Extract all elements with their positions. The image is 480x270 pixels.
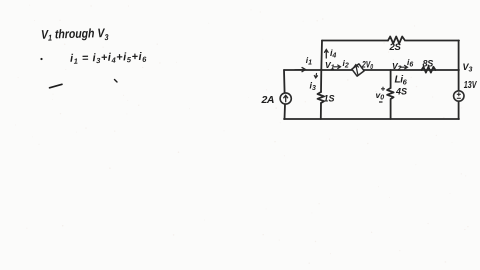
svg-text:13V: 13V — [464, 79, 477, 91]
svg-text:4S: 4S — [395, 87, 407, 97]
svg-text:2A: 2A — [261, 94, 274, 106]
svg-text:2S: 2S — [389, 42, 402, 53]
svg-text:1S: 1S — [324, 94, 335, 104]
svg-text:8S: 8S — [423, 58, 434, 68]
